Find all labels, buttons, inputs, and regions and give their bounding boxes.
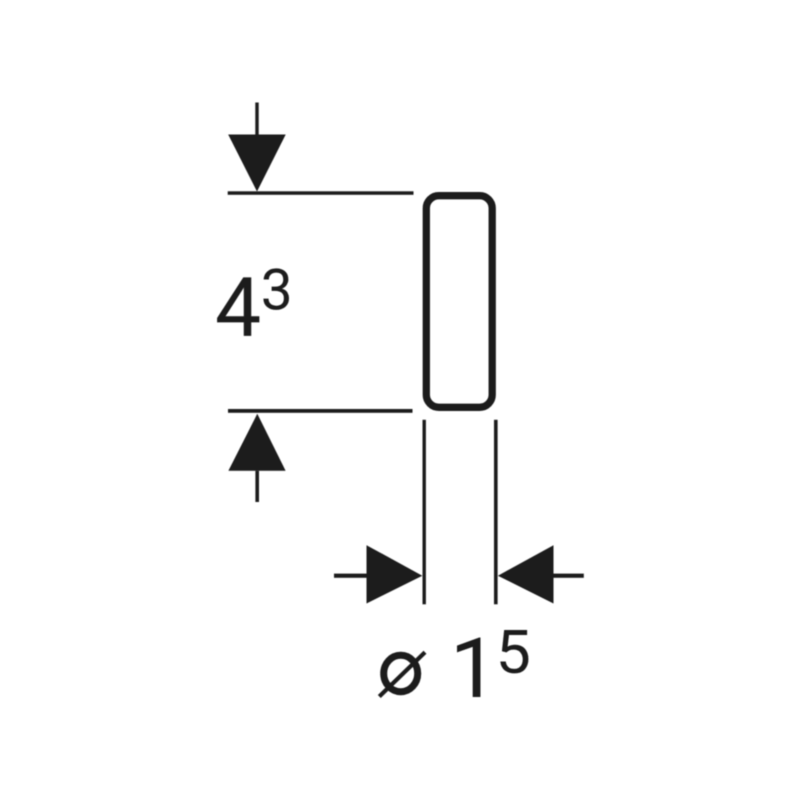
left width arrow tail — [334, 574, 367, 578]
diameter symbol slash — [379, 652, 425, 696]
upper dimension line (43 top) — [228, 191, 414, 195]
lower dimension line (43 bottom) — [228, 409, 413, 413]
dimension label 1 — [457, 638, 480, 697]
up arrow head — [228, 414, 285, 471]
pill outline (tube cross-section) — [426, 196, 492, 408]
dimension label 4 — [217, 277, 259, 335]
dimension label superscript 5 — [500, 630, 528, 673]
diameter symbol ring — [384, 655, 418, 691]
left width arrow head (points right) — [367, 545, 423, 603]
up arrow tail — [255, 471, 259, 502]
down arrow head — [228, 135, 286, 192]
dimension label superscript 3 — [263, 268, 289, 309]
right width arrow head (points left) — [498, 545, 554, 603]
left extension line — [423, 420, 426, 605]
right extension line — [494, 420, 498, 605]
right width arrow tail — [554, 574, 584, 578]
down arrow tail — [255, 103, 258, 136]
